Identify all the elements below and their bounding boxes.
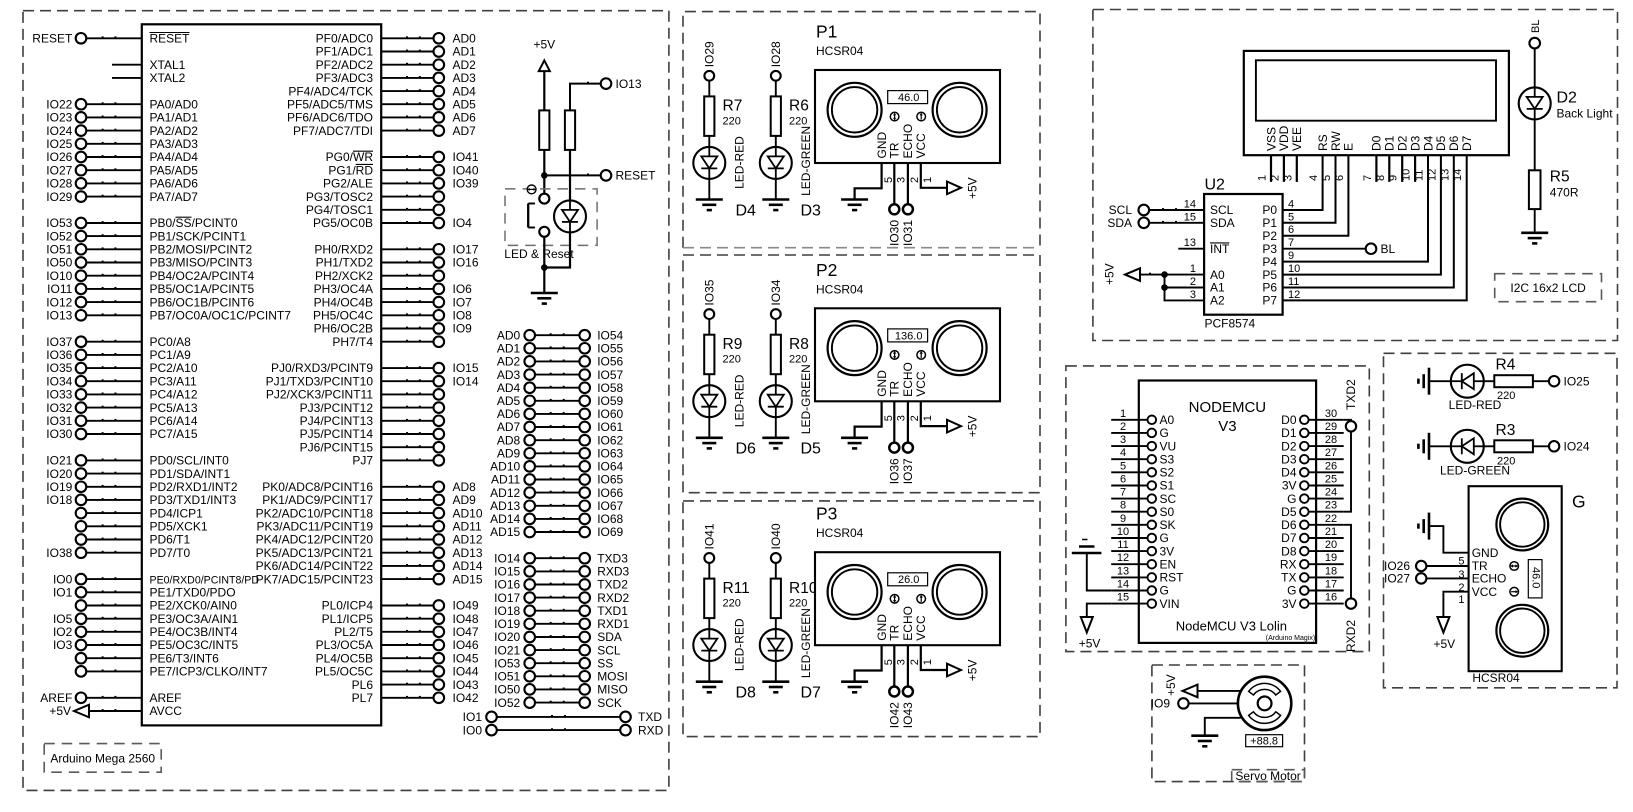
pin PB3/MISO/PCINT3 (node IO50) bbox=[46, 256, 252, 270]
svg-text:AD15: AD15 bbox=[453, 572, 483, 586]
svg-text:R4: R4 bbox=[1496, 357, 1516, 374]
svg-text:IO43: IO43 bbox=[453, 678, 479, 692]
svg-text:PC1/A9: PC1/A9 bbox=[150, 348, 192, 362]
jumper IO20 - SDA bbox=[494, 630, 622, 644]
svg-text:+5V: +5V bbox=[49, 704, 71, 718]
svg-text:PC4/A12: PC4/A12 bbox=[150, 388, 198, 402]
svg-text:R8: R8 bbox=[789, 336, 809, 353]
label R6 220 bbox=[789, 98, 809, 128]
svg-text:IO35: IO35 bbox=[46, 361, 72, 375]
svg-text:IO61: IO61 bbox=[597, 420, 623, 434]
svg-text:Back Light: Back Light bbox=[1557, 107, 1614, 121]
LCD pin numbers 1-14 bbox=[1257, 169, 1465, 181]
ground (D6) bbox=[696, 438, 723, 449]
svg-text:220: 220 bbox=[789, 115, 807, 127]
NodeMCU pin A0 (1) bbox=[1111, 408, 1174, 427]
svg-text:AD7: AD7 bbox=[453, 124, 477, 138]
svg-text:+5V: +5V bbox=[1433, 637, 1455, 651]
pin XTAL2 bbox=[112, 71, 186, 85]
pin PB2/MOSI/PCINT2 (node IO51) bbox=[46, 243, 252, 257]
pin PA3/AD3 (node IO25) bbox=[46, 137, 198, 151]
svg-text:1: 1 bbox=[922, 659, 934, 665]
svg-text:R5: R5 bbox=[1550, 169, 1570, 186]
svg-text:D0: D0 bbox=[1281, 413, 1297, 427]
svg-text:PK2/ADC10/PCINT18: PK2/ADC10/PCINT18 bbox=[256, 506, 374, 520]
svg-text:PC0/A8: PC0/A8 bbox=[150, 335, 192, 349]
pin PE1/TXD0/PDO (node IO1) bbox=[53, 586, 236, 600]
pin PJ0/RXD3/PCINT9 (node IO15) bbox=[271, 361, 479, 375]
G icon 1 bbox=[1510, 562, 1519, 571]
svg-text:PL1/ICP5: PL1/ICP5 bbox=[322, 612, 374, 626]
svg-text:PG4/TOSC1: PG4/TOSC1 bbox=[306, 203, 373, 217]
svg-text:22: 22 bbox=[1325, 513, 1337, 525]
pin PL1/ICP5 (node IO48) bbox=[322, 612, 479, 626]
svg-text:IO24: IO24 bbox=[1564, 440, 1590, 454]
label D5 bbox=[801, 441, 822, 458]
section box: P2 HCSR04 bbox=[683, 255, 1040, 493]
LCD pin labels bbox=[1264, 125, 1474, 151]
pin PJ5/PCINT14 bbox=[300, 427, 444, 441]
svg-text:VEE: VEE bbox=[1290, 127, 1304, 151]
svg-text:HCSR04: HCSR04 bbox=[816, 526, 864, 540]
ground (D2) bbox=[1521, 233, 1548, 244]
LED D2 back light bbox=[1519, 87, 1551, 119]
node IO25 bbox=[1549, 374, 1590, 388]
pin PF2/ADC2 (node AD2) bbox=[316, 58, 477, 72]
wire D5 to ground bbox=[775, 417, 777, 438]
svg-text:AD11: AD11 bbox=[453, 520, 482, 534]
svg-text:IO11: IO11 bbox=[47, 282, 72, 296]
svg-text:VCC: VCC bbox=[914, 371, 928, 397]
label LED-RED bbox=[733, 136, 747, 189]
svg-text:TR: TR bbox=[888, 380, 902, 396]
svg-text:PH3/OC4A: PH3/OC4A bbox=[314, 282, 373, 296]
ground (LED1) bbox=[1418, 368, 1429, 395]
svg-text:1: 1 bbox=[1120, 408, 1126, 420]
pin PE2/XCK0/AIN0 bbox=[76, 599, 238, 613]
pin PH5/OC4C (node IO8) bbox=[313, 309, 472, 323]
label LED-RED bbox=[1449, 398, 1502, 412]
U2 left pin numbers bbox=[1184, 199, 1196, 301]
svg-text:PJ3/PCINT12: PJ3/PCINT12 bbox=[300, 401, 374, 415]
svg-text:AD12: AD12 bbox=[490, 486, 520, 500]
svg-text:D8: D8 bbox=[736, 685, 757, 702]
ground (D8) bbox=[696, 682, 723, 693]
svg-text:INT: INT bbox=[1210, 242, 1230, 256]
svg-text:TR: TR bbox=[888, 624, 902, 640]
label NODEMCU V3 bbox=[1189, 399, 1267, 435]
svg-text:IO51: IO51 bbox=[46, 243, 72, 257]
svg-text:P3: P3 bbox=[816, 504, 837, 524]
svg-text:1: 1 bbox=[1190, 263, 1196, 275]
node IO26 bbox=[1384, 559, 1469, 573]
svg-text:PF6/ADC6/TDO: PF6/ADC6/TDO bbox=[287, 111, 373, 125]
pin PJ1/TXD3/PCINT10 (node IO14) bbox=[266, 374, 479, 388]
svg-text:P2: P2 bbox=[816, 260, 837, 280]
svg-text:10: 10 bbox=[1117, 526, 1129, 538]
pin PL5/OC5C (node IO44) bbox=[315, 665, 479, 679]
svg-text:IO54: IO54 bbox=[597, 328, 623, 342]
svg-text:AD8: AD8 bbox=[453, 480, 477, 494]
pin PL6 (node IO43) bbox=[352, 678, 479, 692]
label G bbox=[1572, 492, 1586, 512]
svg-text:PE5/OC3C/INT5: PE5/OC3C/INT5 bbox=[150, 638, 239, 652]
svg-text:MOSI: MOSI bbox=[597, 670, 628, 684]
node IO28 bbox=[769, 41, 783, 81]
NodeMCU pin EN (12) bbox=[1111, 552, 1176, 571]
svg-text:IO21: IO21 bbox=[46, 454, 72, 468]
NodeMCU pin D7 (21) bbox=[1281, 526, 1344, 545]
svg-text:PC2/A10: PC2/A10 bbox=[150, 361, 198, 375]
NodeMCU pin 3V (11) bbox=[1111, 539, 1174, 558]
svg-text:5: 5 bbox=[883, 659, 895, 665]
G bottom transducer bbox=[1496, 605, 1548, 657]
pin PA1/AD1 (node IO23) bbox=[46, 111, 198, 125]
wire gnd to LED1 bbox=[1429, 380, 1451, 382]
servo motor M1 bbox=[1238, 677, 1291, 730]
svg-text:RXD: RXD bbox=[638, 723, 664, 737]
svg-text:PB5/OC1A/PCINT5: PB5/OC1A/PCINT5 bbox=[150, 282, 255, 296]
P1 VCC wire to +5V bbox=[921, 163, 980, 199]
svg-text:LED & Reset: LED & Reset bbox=[504, 247, 574, 261]
pin PC2/A10 (node IO35) bbox=[46, 361, 198, 375]
svg-text:SC: SC bbox=[1160, 492, 1177, 506]
pin AREF (node AREF) bbox=[40, 691, 181, 705]
svg-text:PF1/ADC1: PF1/ADC1 bbox=[316, 45, 374, 59]
svg-text:2: 2 bbox=[909, 415, 921, 421]
svg-text:G: G bbox=[1160, 531, 1169, 545]
wire R9 to D6 bbox=[708, 374, 710, 385]
wire R to LED bbox=[569, 150, 571, 201]
ground (D4) bbox=[696, 200, 723, 211]
svg-text:G: G bbox=[1287, 584, 1296, 598]
svg-text:PK3/ADC11/PCINT19: PK3/ADC11/PCINT19 bbox=[257, 520, 374, 534]
wire P2 to LCD E bbox=[1283, 155, 1349, 236]
svg-text:P1: P1 bbox=[1262, 216, 1277, 230]
jumper IO52 - SCK bbox=[494, 696, 622, 710]
LED LED1 (RED) bbox=[1451, 365, 1484, 398]
svg-text:PE2/XCK0/AIN0: PE2/XCK0/AIN0 bbox=[150, 599, 238, 613]
ultrasonic sensor G body bbox=[1469, 486, 1562, 671]
svg-text:PD0/SCL/INT0: PD0/SCL/INT0 bbox=[150, 454, 230, 468]
svg-text:VSS: VSS bbox=[1264, 127, 1278, 151]
label I2C 16x2 LCD bbox=[1495, 274, 1602, 302]
pin PD5/XCK1 bbox=[76, 520, 208, 534]
wire LED1 to R4 bbox=[1484, 380, 1495, 382]
svg-text:7: 7 bbox=[1288, 237, 1294, 249]
pin PC6/A14 (node IO31) bbox=[46, 414, 198, 428]
svg-text:PL3/OC5A: PL3/OC5A bbox=[316, 638, 373, 652]
svg-text:PJ6/PCINT15: PJ6/PCINT15 bbox=[300, 440, 374, 454]
label R7 220 bbox=[723, 98, 743, 128]
svg-text:PK1/ADC9/PCINT17: PK1/ADC9/PCINT17 bbox=[262, 493, 373, 507]
svg-text:A0: A0 bbox=[1210, 268, 1225, 282]
svg-text:PB7/OC0A/OC1C/PCINT7: PB7/OC0A/OC1C/PCINT7 bbox=[150, 309, 292, 323]
node SCL bbox=[1109, 203, 1204, 217]
U2 right pin numbers bbox=[1288, 199, 1300, 301]
svg-text:D6: D6 bbox=[1447, 135, 1461, 151]
P2 VCC wire to +5V bbox=[921, 401, 980, 437]
svg-text:P4: P4 bbox=[1262, 255, 1277, 269]
pin PF7/ADC7/TDI (node AD7) bbox=[293, 124, 476, 138]
svg-text:AD10: AD10 bbox=[490, 460, 520, 474]
svg-text:AD6: AD6 bbox=[453, 111, 477, 125]
svg-text:PD7/T0: PD7/T0 bbox=[150, 546, 191, 560]
svg-text:TR: TR bbox=[888, 142, 902, 158]
svg-text:PL0/ICP4: PL0/ICP4 bbox=[322, 599, 374, 613]
svg-text:IO56: IO56 bbox=[597, 355, 623, 369]
svg-text:SS: SS bbox=[597, 656, 613, 670]
svg-text:30: 30 bbox=[1325, 408, 1337, 420]
svg-text:PG1/RD: PG1/RD bbox=[328, 163, 373, 177]
svg-text:IO67: IO67 bbox=[597, 499, 623, 513]
svg-text:IO60: IO60 bbox=[597, 407, 623, 421]
svg-text:PG3/TOSC2: PG3/TOSC2 bbox=[306, 190, 373, 204]
pin PA5/AD5 (node IO27) bbox=[46, 163, 198, 177]
pin PD6/T1 bbox=[76, 533, 191, 547]
svg-text:2: 2 bbox=[1120, 421, 1126, 433]
P2 ECHO wire / node IO37 bbox=[901, 401, 915, 484]
jumper IO19 - RXD1 bbox=[494, 617, 629, 631]
svg-text:PB4/OC2A/PCINT4: PB4/OC2A/PCINT4 bbox=[150, 269, 255, 283]
svg-text:LED-RED: LED-RED bbox=[1449, 398, 1502, 412]
NodeMCU pin TX (18) bbox=[1281, 565, 1344, 584]
svg-text:3: 3 bbox=[1190, 289, 1196, 301]
wire +5V to R bbox=[543, 71, 545, 110]
pin PH7/T4 bbox=[332, 335, 444, 349]
pin PC4/A12 (node IO33) bbox=[46, 388, 198, 402]
jumper IO17 - RXD2 bbox=[494, 591, 629, 605]
ground (D7) bbox=[762, 682, 789, 693]
svg-text:LED-RED: LED-RED bbox=[733, 374, 747, 427]
svg-text:ECHO: ECHO bbox=[901, 362, 915, 397]
servo gnd wire bbox=[1205, 718, 1241, 736]
pin PE3/OC3A/AIN1 (node IO5) bbox=[53, 612, 239, 626]
svg-text:PA2/AD2: PA2/AD2 bbox=[150, 124, 199, 138]
pin PJ7 bbox=[352, 454, 444, 468]
net RXD2 (D6-3V) bbox=[1344, 525, 1359, 652]
svg-text:PG5/OC0B: PG5/OC0B bbox=[313, 216, 373, 230]
P2 icon 2 bbox=[917, 351, 926, 360]
svg-text:IO52: IO52 bbox=[46, 229, 72, 243]
svg-text:IO51: IO51 bbox=[494, 670, 520, 684]
pin PE7/ICP3/CLKO/INT7 bbox=[76, 665, 268, 679]
svg-text:PD5/XCK1: PD5/XCK1 bbox=[150, 520, 208, 534]
node SDA bbox=[1107, 216, 1204, 230]
svg-text:BL: BL bbox=[1381, 242, 1396, 256]
svg-text:28: 28 bbox=[1325, 434, 1337, 446]
svg-text:IO28: IO28 bbox=[769, 41, 783, 67]
LED D5 (green) bbox=[760, 385, 792, 417]
label R11 220 bbox=[723, 580, 750, 610]
svg-text:S2: S2 bbox=[1160, 466, 1175, 480]
svg-text:IO17: IO17 bbox=[494, 591, 520, 605]
svg-text:P6: P6 bbox=[1262, 281, 1277, 295]
svg-text:RST: RST bbox=[1160, 571, 1185, 585]
pin PK7/ADC15/PCINT23 (node AD15) bbox=[256, 572, 483, 586]
svg-text:TXD: TXD bbox=[638, 710, 662, 724]
svg-text:P7: P7 bbox=[1262, 294, 1277, 308]
svg-text:AD2: AD2 bbox=[453, 58, 477, 72]
pin PK4/ADC12/PCINT20 (node AD12) bbox=[256, 533, 483, 547]
P3 ECHO wire / node IO43 bbox=[901, 645, 915, 728]
svg-text:AD1: AD1 bbox=[497, 342, 521, 356]
svg-text:PL7: PL7 bbox=[352, 691, 374, 705]
svg-text:PK0/ADC8/PCINT16: PK0/ADC8/PCINT16 bbox=[262, 480, 373, 494]
svg-text:SCL: SCL bbox=[597, 643, 621, 657]
svg-text:PD1/SDA/INT1: PD1/SDA/INT1 bbox=[150, 467, 231, 481]
wire P4 to LCD D4 bbox=[1283, 155, 1428, 261]
jumper AD1 - IO55 bbox=[497, 342, 624, 356]
pin PC5/A13 (node IO32) bbox=[46, 401, 198, 415]
svg-text:IO62: IO62 bbox=[597, 433, 623, 447]
svg-text:IO23: IO23 bbox=[46, 111, 72, 125]
pin PA0/AD0 (node IO22) bbox=[46, 98, 198, 112]
svg-text:27: 27 bbox=[1325, 447, 1337, 459]
IC body ATmega2560 bbox=[142, 24, 381, 725]
svg-text:PA5/AD5: PA5/AD5 bbox=[150, 163, 199, 177]
svg-text:IO41: IO41 bbox=[702, 523, 716, 549]
label R9 220 bbox=[723, 336, 743, 366]
section box: right sensor G bbox=[1384, 353, 1618, 688]
svg-text:IO46: IO46 bbox=[453, 638, 479, 652]
svg-text:PF4/ADC4/TCK: PF4/ADC4/TCK bbox=[288, 84, 373, 98]
svg-text:PB6/OC1B/PCINT6: PB6/OC1B/PCINT6 bbox=[150, 295, 255, 309]
NodeMCU pin G (17) bbox=[1287, 579, 1344, 598]
svg-text:IO8: IO8 bbox=[453, 309, 473, 323]
label PCF8574 bbox=[1205, 317, 1256, 331]
ground (P1) bbox=[841, 200, 868, 211]
svg-text:10: 10 bbox=[1288, 263, 1300, 275]
svg-text:15: 15 bbox=[1184, 211, 1196, 223]
resistor R11 bbox=[704, 579, 714, 619]
svg-text:IO25: IO25 bbox=[46, 137, 72, 151]
svg-text:D2: D2 bbox=[1557, 90, 1578, 107]
svg-text:PA6/AD6: PA6/AD6 bbox=[150, 177, 199, 191]
resistor R5 bbox=[1529, 170, 1541, 209]
pin PL3/OC5A (node IO46) bbox=[316, 638, 479, 652]
svg-text:IO53: IO53 bbox=[494, 656, 520, 670]
svg-text:VCC: VCC bbox=[914, 133, 928, 159]
P1 TR wire / node IO30 bbox=[887, 163, 901, 246]
svg-text:PD3/TXD1/INT3: PD3/TXD1/INT3 bbox=[150, 493, 237, 507]
wire LED2 to R3 bbox=[1484, 445, 1495, 447]
svg-text:13: 13 bbox=[1117, 565, 1129, 577]
pin PC1/A9 (node IO36) bbox=[46, 348, 191, 362]
svg-text:15: 15 bbox=[1117, 592, 1129, 604]
svg-text:IO29: IO29 bbox=[46, 190, 72, 204]
svg-text:PE3/OC3A/AIN1: PE3/OC3A/AIN1 bbox=[150, 612, 239, 626]
svg-text:RXD1: RXD1 bbox=[597, 617, 629, 631]
pin PB0/SS/PCINT0 (node IO53) bbox=[46, 216, 238, 230]
pin PB4/OC2A/PCINT4 (node IO10) bbox=[46, 269, 254, 283]
svg-text:IO2: IO2 bbox=[53, 625, 73, 639]
wire gnd to LED2 bbox=[1429, 445, 1451, 447]
svg-text:IO15: IO15 bbox=[494, 565, 520, 579]
section box: P1 bottom edge bbox=[683, 247, 1040, 249]
svg-text:PH0/RXD2: PH0/RXD2 bbox=[314, 243, 373, 257]
svg-text:PK5/ADC13/PCINT21: PK5/ADC13/PCINT21 bbox=[256, 546, 374, 560]
ground (P2) bbox=[841, 438, 868, 449]
svg-text:AD13: AD13 bbox=[490, 499, 520, 513]
NodeMCU pin S1 (6) bbox=[1111, 474, 1174, 493]
svg-text:R11: R11 bbox=[723, 580, 750, 597]
svg-text:PH4/OC4B: PH4/OC4B bbox=[314, 295, 373, 309]
svg-text:220: 220 bbox=[789, 598, 807, 610]
svg-text:PJ4/PCINT13: PJ4/PCINT13 bbox=[300, 414, 374, 428]
svg-text:P1: P1 bbox=[816, 22, 837, 42]
svg-text:IO47: IO47 bbox=[453, 625, 479, 639]
label Arduino Mega 2560 bbox=[44, 744, 161, 773]
svg-text:P2: P2 bbox=[1262, 229, 1277, 243]
P1 distance value 46.0 bbox=[888, 91, 928, 104]
svg-text:IO32: IO32 bbox=[46, 401, 72, 415]
svg-text:IO63: IO63 bbox=[597, 447, 623, 461]
pin PL4/OC5B (node IO45) bbox=[316, 651, 479, 665]
svg-text:PK6/ADC14/PCINT22: PK6/ADC14/PCINT22 bbox=[256, 559, 374, 573]
wire R6 to D3 bbox=[775, 136, 777, 147]
svg-text:AD14: AD14 bbox=[490, 512, 520, 526]
svg-text:PF7/ADC7/TDI: PF7/ADC7/TDI bbox=[293, 124, 373, 138]
P3 GND wire bbox=[855, 645, 882, 682]
wire junction to ground bbox=[543, 268, 545, 294]
svg-text:PE7/ICP3/CLKO/INT7: PE7/ICP3/CLKO/INT7 bbox=[150, 665, 268, 679]
pin PK0/ADC8/PCINT16 (node AD8) bbox=[262, 480, 476, 494]
svg-text:LED-RED: LED-RED bbox=[733, 136, 747, 189]
svg-text:TXD2: TXD2 bbox=[597, 578, 628, 592]
svg-text:3V: 3V bbox=[1282, 597, 1297, 611]
svg-text:G: G bbox=[1160, 426, 1169, 440]
svg-text:AD4: AD4 bbox=[497, 381, 521, 395]
svg-text:LED-GREEN: LED-GREEN bbox=[799, 126, 813, 196]
svg-text:HCSR04: HCSR04 bbox=[816, 44, 864, 58]
svg-text:23: 23 bbox=[1325, 500, 1337, 512]
svg-text:IO38: IO38 bbox=[46, 546, 72, 560]
P3 TR wire / node IO42 bbox=[887, 645, 901, 728]
jumper AD10 - IO64 bbox=[490, 460, 623, 474]
svg-text:IO48: IO48 bbox=[453, 612, 479, 626]
svg-text:S0: S0 bbox=[1160, 505, 1175, 519]
svg-text:PL4/OC5B: PL4/OC5B bbox=[316, 651, 373, 665]
svg-text:AVCC: AVCC bbox=[150, 704, 183, 718]
svg-text:RXD3: RXD3 bbox=[597, 565, 629, 579]
svg-text:IO30: IO30 bbox=[46, 427, 72, 441]
wire BL to D2 bbox=[1534, 48, 1536, 87]
label R3 220 bbox=[1496, 422, 1516, 468]
svg-text:AD0: AD0 bbox=[497, 328, 521, 342]
svg-text:PCF8574: PCF8574 bbox=[1205, 317, 1256, 331]
NodeMCU pin D6 (22) bbox=[1281, 513, 1344, 532]
node RESET bbox=[546, 169, 656, 183]
svg-text:R6: R6 bbox=[789, 98, 809, 115]
pin PE6/T3/INT6 bbox=[76, 651, 219, 665]
svg-text:RXD2: RXD2 bbox=[597, 591, 629, 605]
svg-text:RESET: RESET bbox=[150, 32, 191, 46]
svg-text:PH5/OC4C: PH5/OC4C bbox=[313, 309, 373, 323]
svg-text:VIN: VIN bbox=[1160, 597, 1180, 611]
jumper IO1 - TXD bbox=[463, 710, 663, 724]
wire A2 with riser bbox=[1165, 275, 1205, 301]
svg-text:NodeMCU V3 Lolin: NodeMCU V3 Lolin bbox=[1176, 619, 1287, 634]
svg-text:PE6/T3/INT6: PE6/T3/INT6 bbox=[150, 651, 220, 665]
label LED-RED bbox=[733, 618, 747, 671]
svg-text:PD6/T1: PD6/T1 bbox=[150, 533, 191, 547]
svg-text:IO13: IO13 bbox=[616, 77, 642, 91]
node IO29 bbox=[702, 41, 716, 81]
label LED-GREEN bbox=[1440, 463, 1510, 477]
pin PA4/AD4 (node IO26) bbox=[46, 150, 198, 164]
svg-text:IO13: IO13 bbox=[46, 309, 72, 323]
